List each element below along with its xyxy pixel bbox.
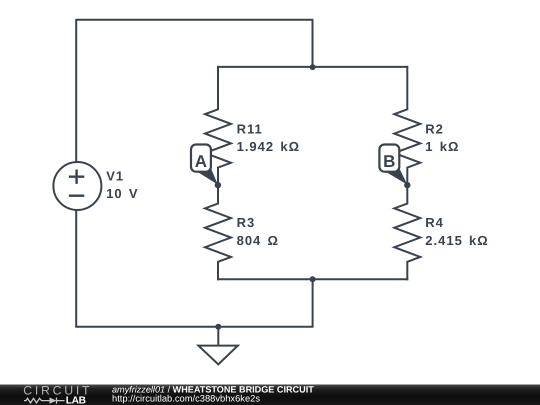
svg-text:1 kΩ: 1 kΩ	[425, 139, 459, 154]
svg-text:10 V: 10 V	[106, 186, 138, 201]
V1 plus sign	[70, 171, 83, 183]
node B flag tail wedge	[386, 168, 407, 185]
wire: bottom junction down, across left, up to V1 negative terminal	[76, 210, 312, 327]
wire: V1 positive terminal up and across to top junction	[76, 20, 312, 162]
junction dot: top center node	[310, 64, 316, 70]
junction dot: node A point	[215, 182, 221, 188]
junction dot: bottom center node	[310, 276, 316, 282]
svg-text:V1: V1	[106, 169, 124, 184]
svg-text:B: B	[383, 152, 395, 171]
voltage source V1	[53, 162, 101, 210]
svg-text:R11: R11	[237, 121, 263, 136]
wire: top rail of bridge	[218, 66, 407, 68]
resistor R3	[205, 185, 231, 279]
resistor R2	[394, 67, 420, 185]
svg-text:R3: R3	[237, 215, 256, 230]
svg-text:2.415 kΩ: 2.415 kΩ	[425, 233, 488, 248]
svg-text:1.942 kΩ: 1.942 kΩ	[237, 139, 300, 154]
ground	[198, 327, 237, 365]
svg-text:http://circuitlab.com/c388vbhx: http://circuitlab.com/c388vbhx6ke2s	[112, 394, 260, 404]
V1 minus sign	[70, 194, 83, 196]
node B flag box	[379, 145, 399, 172]
svg-text:A: A	[195, 152, 207, 171]
footer bar	[0, 385, 540, 405]
wire: bottom rail of bridge	[218, 278, 407, 280]
svg-text:LAB: LAB	[66, 396, 86, 405]
svg-text:R2: R2	[425, 121, 444, 136]
node A flag box	[191, 145, 211, 172]
svg-text:804 Ω: 804 Ω	[237, 233, 279, 248]
resistor R11	[205, 67, 231, 185]
junction dot: ground node	[215, 324, 221, 330]
svg-text:R4: R4	[425, 215, 444, 230]
junction dot: node B point	[404, 182, 410, 188]
resistor R4	[394, 185, 420, 279]
node A flag tail wedge	[198, 168, 218, 185]
CircuitLab logo resistor+diode glyph	[24, 398, 65, 404]
